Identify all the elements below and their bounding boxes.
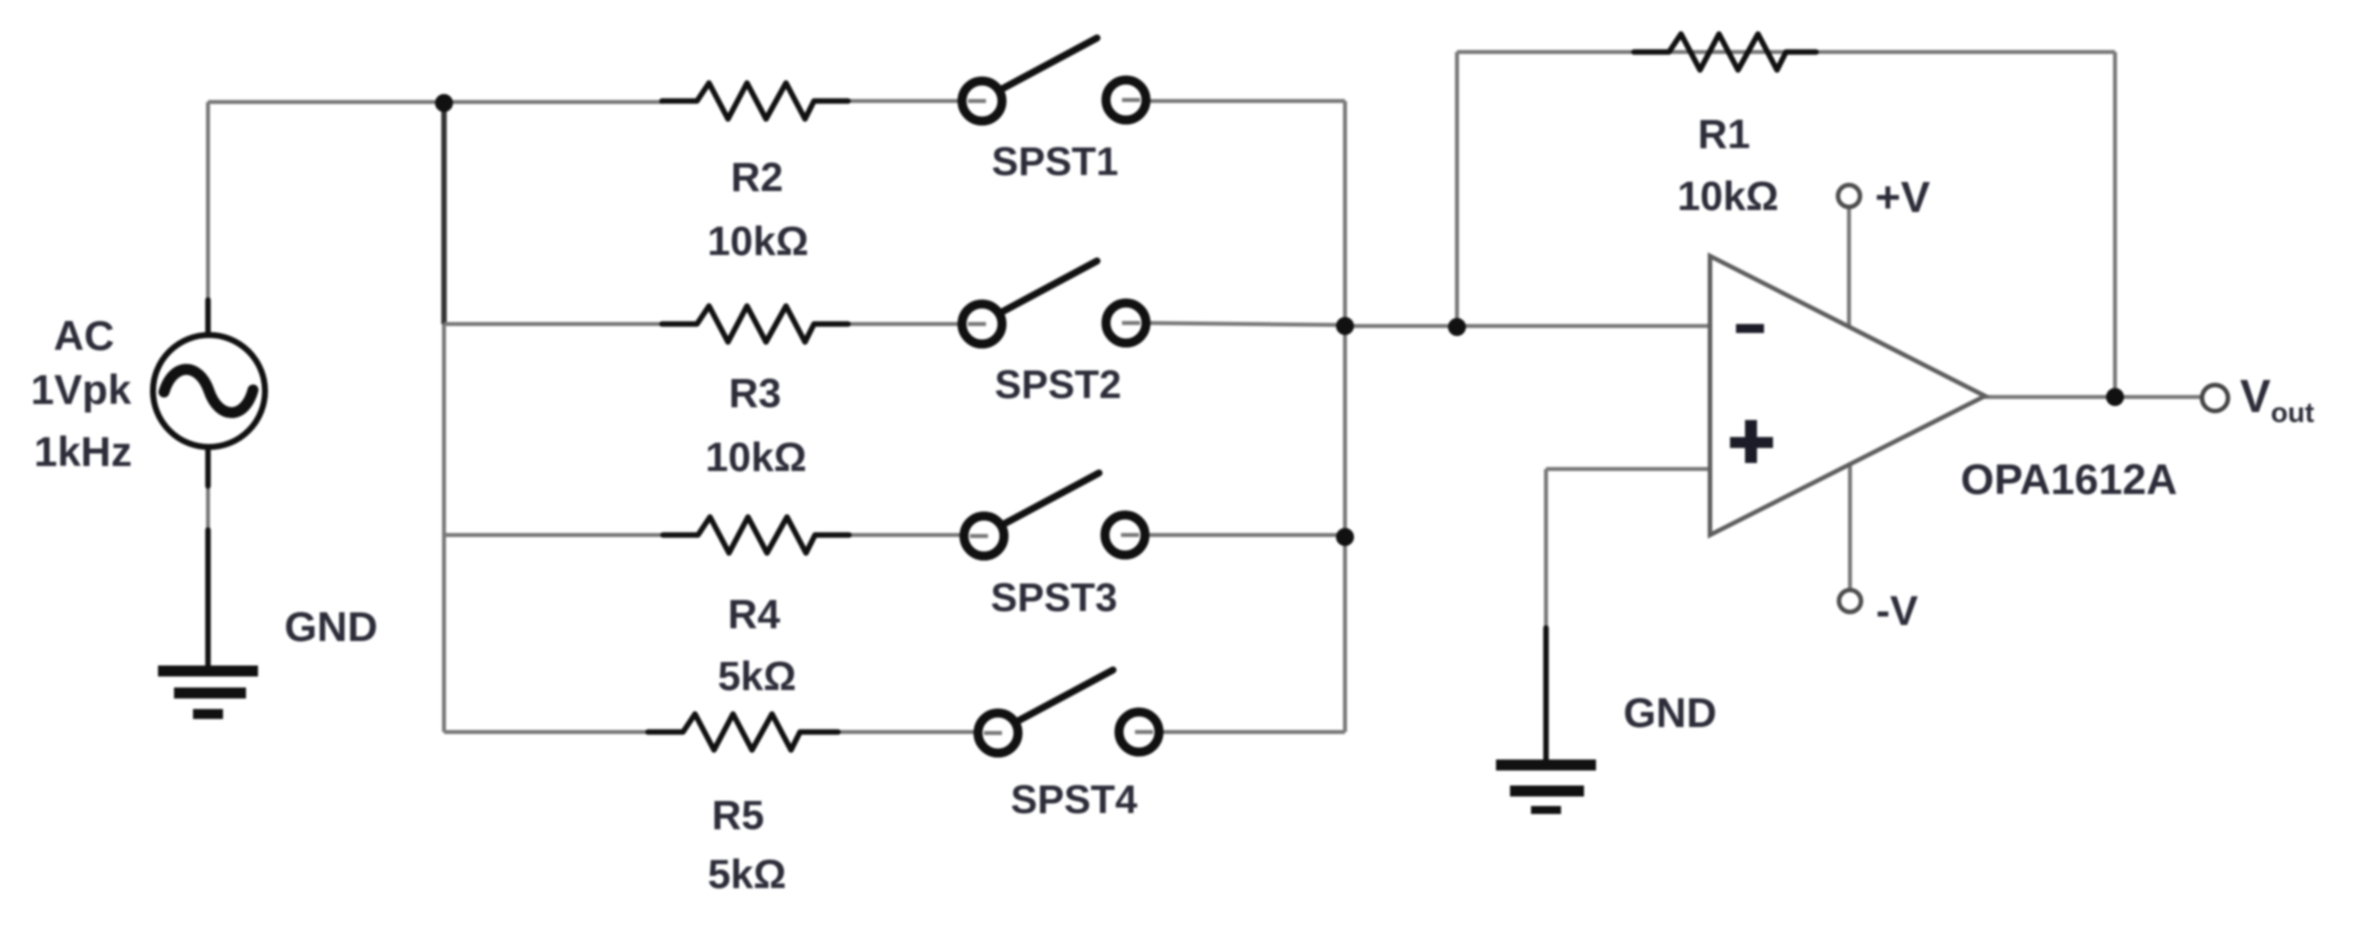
wire branch2 bus to R3	[444, 322, 662, 326]
wire feedback left vertical	[1455, 52, 1459, 326]
wire non-inverting input horizontal	[1546, 467, 1710, 471]
wire non-inverting input vertical to ground	[1544, 469, 1548, 640]
wire branch3 R4 to SPST3	[849, 533, 962, 537]
resistor R5	[648, 714, 838, 750]
svg-text:10kΩ: 10kΩ	[707, 218, 808, 264]
terminal -V	[1839, 590, 1861, 612]
svg-text:R3: R3	[729, 370, 781, 416]
wire feedback top horizontal	[1457, 50, 2115, 54]
svg-text:R5: R5	[712, 792, 764, 838]
resistor R4	[663, 517, 849, 553]
wire branch4 bus to R5	[444, 730, 648, 734]
svg-text:1Vpk: 1Vpk	[31, 366, 132, 413]
node junction dot right bus at branch2	[1336, 317, 1354, 335]
AC source V1	[153, 300, 265, 486]
terminal +V	[1838, 185, 1860, 207]
node junction dot feedback tap	[1448, 318, 1466, 336]
svg-text:5kΩ: 5kΩ	[718, 653, 796, 699]
wire left bus dark upper segment	[441, 103, 447, 324]
op-amp U1 OPA1612A	[1710, 256, 1985, 535]
node junction dot top-left bus	[435, 94, 453, 112]
svg-text:GND: GND	[1623, 689, 1716, 736]
switch SPST4	[978, 670, 1159, 753]
svg-text:10kΩ: 10kΩ	[1677, 173, 1778, 219]
wire op-amp output	[1985, 395, 2202, 399]
wire +V supply vertical	[1847, 207, 1851, 327]
switch SPST2	[962, 261, 1146, 344]
resistor R3	[662, 306, 848, 342]
resistor R2	[662, 83, 848, 119]
terminal Vout	[2202, 385, 2228, 411]
wire AC source top vertical	[206, 102, 210, 320]
wire -V supply vertical	[1848, 464, 1852, 590]
wire feedback right vertical	[2113, 52, 2117, 397]
ground (left)	[158, 530, 258, 714]
wire left bus vertical	[442, 102, 446, 732]
switch SPST1	[962, 38, 1146, 121]
svg-text:5kΩ: 5kΩ	[708, 851, 786, 897]
svg-text:R1: R1	[1698, 111, 1750, 157]
wire branch3 bus to R4	[444, 533, 663, 537]
wire right bus vertical	[1343, 101, 1347, 732]
ground (right, at non-inverting input)	[1496, 628, 1596, 810]
wire branch2 SPST2 to op-amp inverting input	[1148, 323, 1345, 325]
svg-text:AC: AC	[54, 312, 115, 359]
resistor R1	[1634, 34, 1816, 70]
node junction dot output feedback	[2106, 388, 2124, 406]
svg-text:GND: GND	[284, 603, 377, 650]
svg-text:OPA1612A: OPA1612A	[1961, 456, 2178, 504]
wire branch3 SPST3 to right bus	[1147, 533, 1345, 537]
node junction dot right bus at branch3	[1336, 528, 1354, 546]
svg-text:SPST3: SPST3	[991, 576, 1118, 620]
svg-text:R4: R4	[728, 591, 781, 637]
svg-text:1kHz: 1kHz	[34, 428, 132, 475]
wire AC source bottom to ground	[206, 460, 210, 660]
wire branch2 R3 to SPST2	[848, 322, 960, 326]
svg-text:+V: +V	[1875, 173, 1931, 222]
svg-text:SPST1: SPST1	[992, 140, 1119, 184]
svg-text:SPST2: SPST2	[995, 363, 1122, 407]
wire branch1 SPST1 to right bus	[1148, 99, 1345, 103]
svg-text:R2: R2	[731, 154, 783, 200]
switch SPST3	[964, 473, 1145, 556]
wire top horizontal from AC to bus and R2	[208, 100, 662, 104]
wire branch4 R5 to SPST4	[838, 730, 976, 734]
wire inverting input segment	[1345, 324, 1710, 328]
svg-text:-V: -V	[1876, 587, 1918, 634]
svg-text:10kΩ: 10kΩ	[705, 434, 806, 480]
wire branch1 R2 to SPST1	[848, 99, 960, 103]
svg-text:SPST4: SPST4	[1011, 778, 1138, 822]
wire branch4 SPST4 to right bus	[1161, 730, 1345, 734]
